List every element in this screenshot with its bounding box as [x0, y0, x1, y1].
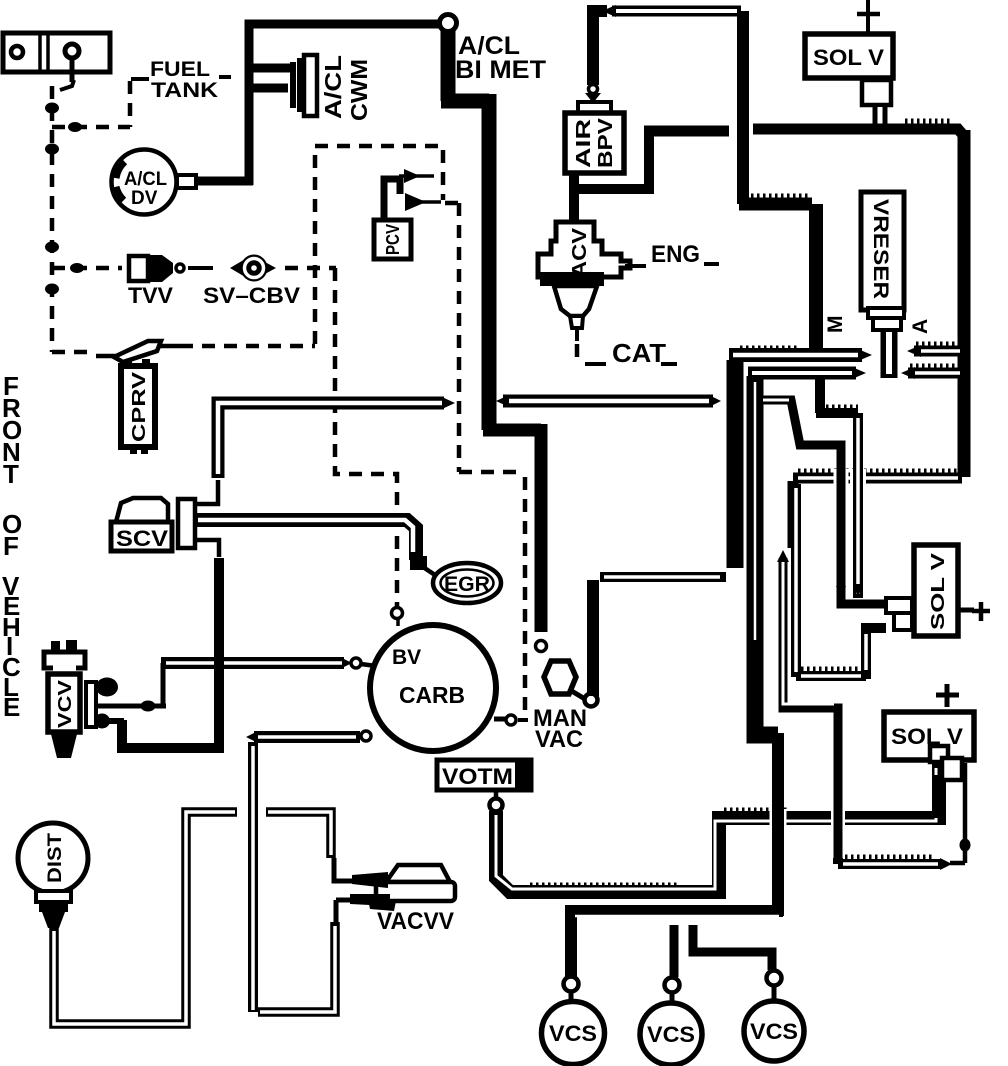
svg-text:VCS: VCS [549, 1021, 597, 1046]
svg-text:CPRV: CPRV [129, 372, 149, 442]
dashed branch to fuel tank line [52, 125, 130, 130]
riser and top line [249, 24, 441, 185]
SOL V mid [886, 545, 990, 636]
taper+ring to hex [536, 641, 547, 652]
SV-CBV [203, 255, 300, 309]
VCS rings and circles [564, 977, 579, 992]
EGR [433, 563, 501, 603]
right vertical x=964 [958, 130, 971, 477]
svg-text:A: A [909, 319, 932, 334]
SCV bottom loop to VCV [196, 540, 219, 557]
fuel tank leader dashed vertical [128, 81, 133, 127]
PCV dashed box [52, 350, 94, 355]
tick below connector [60, 80, 74, 90]
tube4 to carb [161, 657, 344, 669]
PCV component [374, 169, 441, 259]
svg-text:ACV: ACV [569, 227, 591, 278]
carb right port to MAN VAC dashes [494, 717, 506, 722]
svg-text:SCV: SCV [116, 526, 168, 551]
svg-text:BI MET: BI MET [455, 56, 546, 84]
corrugated tubes right of VRESER [914, 346, 962, 357]
P line from tube B down to SOL V mid [816, 378, 858, 598]
top right: riser x=743 and corrugated jog [737, 11, 749, 204]
svg-text:VRESER: VRESER [869, 199, 892, 299]
svg-text:TANK: TANK [151, 79, 218, 102]
VCV component [44, 640, 121, 758]
svg-text:VACVV: VACVV [377, 908, 454, 935]
svg-text:DV: DV [131, 188, 158, 209]
svg-text:SV–CBV: SV–CBV [203, 283, 300, 308]
BPV to ACV and branch right [569, 173, 579, 222]
SOL V bottom [884, 684, 974, 818]
svg-text:VCS: VCS [647, 1022, 695, 1047]
wire DV to CWM riser [196, 177, 253, 186]
svg-text:E: E [3, 692, 20, 722]
line y=131 left piece [644, 126, 729, 137]
DIST loop hose [54, 812, 237, 1024]
svg-text:SOL V: SOL V [928, 553, 948, 630]
svg-text:FUEL: FUEL [150, 58, 210, 81]
dashed branch to TVV [52, 266, 122, 271]
svg-text:SOL V: SOL V [891, 724, 963, 749]
hatched line y=478 with elbow down at x=793 [793, 478, 962, 548]
svg-text:VCV: VCV [55, 680, 75, 728]
TVV [128, 255, 184, 308]
svg-text:CAT: CAT [612, 338, 666, 368]
A/CL DV [112, 150, 197, 215]
VCS drop 3 jog [693, 925, 772, 970]
svg-text:ENG: ENG [651, 241, 700, 268]
CPRV [96, 341, 180, 454]
Q line diagonal [760, 400, 884, 604]
svg-text:VOTM: VOTM [442, 764, 513, 789]
svg-text:A/CL: A/CL [320, 55, 346, 119]
svg-text:PCV: PCV [383, 224, 403, 255]
svg-text:M: M [824, 316, 847, 334]
VOTM hose down right and main line to SOL V bottom [496, 764, 939, 892]
VRESER [861, 192, 904, 378]
svg-text:DIST: DIST [45, 833, 66, 883]
tube2 [503, 395, 713, 408]
junction blobs on dashed line [45, 103, 59, 114]
ACV [538, 222, 630, 341]
svg-text:BPV: BPV [595, 117, 617, 168]
svg-text:CARB: CARB [399, 682, 465, 708]
svg-text:BV: BV [392, 646, 421, 669]
svg-text:F: F [3, 531, 19, 561]
R line x=796 down to corrugated y=676 to SOL V mid bottom [796, 484, 886, 679]
svg-text:T: T [3, 459, 19, 489]
SOL V top [805, 0, 893, 130]
tube5 riser down to DIST loop [246, 804, 261, 820]
dash TVV to SV-CBV [188, 266, 213, 270]
SCV component [111, 480, 218, 551]
tube3 SCV to EGR elbow [196, 520, 416, 560]
loop right section through VACVV [266, 812, 331, 858]
tube B [748, 367, 856, 380]
dashed vertical left x=52 [50, 86, 55, 352]
svg-text:TVV: TVV [128, 283, 173, 308]
svg-text:VAC: VAC [535, 726, 583, 753]
AIR BPV feed from top tube [612, 6, 741, 17]
VOTM [437, 760, 531, 812]
hexagon man vac [544, 661, 576, 694]
tube5 carb lower-left [246, 732, 256, 742]
FUEL TANK label [131, 58, 231, 102]
line y=129 right of riser [753, 129, 964, 136]
VCV mid line to tube4 [98, 704, 166, 709]
ENG label [625, 264, 646, 268]
BV CARB [370, 625, 496, 751]
DIST [18, 823, 88, 928]
svg-text:SOL V: SOL V [813, 45, 884, 70]
tube1: SCV riser to right cap [218, 403, 444, 478]
A/CL CWM horn [249, 55, 372, 121]
manifold from tube B elbow [755, 376, 778, 735]
svg-text:CWM: CWM [346, 59, 372, 121]
tube A elbow down [727, 360, 744, 568]
AIR BPV box [565, 113, 624, 173]
tube A [729, 348, 862, 362]
svg-text:VCS: VCS [750, 1019, 798, 1044]
VACVV [350, 865, 455, 935]
svg-text:EGR: EGR [444, 573, 490, 596]
CAT label [575, 344, 580, 364]
svg-text:A/CL: A/CL [124, 169, 167, 190]
tube y=576 from elbow x=593 [600, 572, 726, 582]
BI MET main hose down [441, 29, 489, 430]
connector box top-left [3, 33, 110, 82]
S line: x=783 cap down, over to x=838, down to y=864 corrugated, to SOL V bottom [831, 809, 845, 828]
svg-text:AIR: AIR [573, 118, 595, 168]
junction ring top [440, 15, 457, 32]
VCS drop 2 [670, 925, 679, 977]
